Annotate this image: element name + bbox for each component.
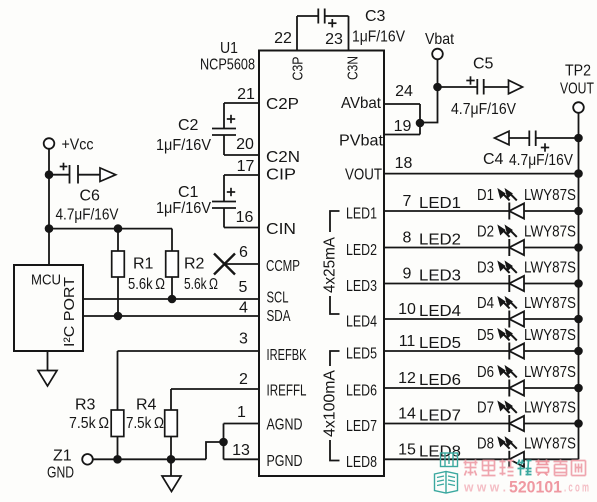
svg-text:PVbat: PVbat xyxy=(339,133,384,150)
svg-text:Z1: Z1 xyxy=(53,448,72,465)
terminal Vbat xyxy=(432,49,443,60)
svg-text:520101: 520101 xyxy=(509,479,562,497)
svg-text:12: 12 xyxy=(398,370,416,387)
svg-text:LED7: LED7 xyxy=(419,408,461,425)
capacitor C4 xyxy=(528,131,530,147)
svg-text:LWY87S: LWY87S xyxy=(524,260,576,277)
svg-text:18: 18 xyxy=(395,155,413,172)
resistor R4 xyxy=(165,410,178,437)
capacitor C1 xyxy=(212,201,236,203)
svg-text:LWY87S: LWY87S xyxy=(524,187,576,204)
svg-text:D8: D8 xyxy=(477,435,494,452)
svg-text:2: 2 xyxy=(239,371,248,388)
svg-text:C3N: C3N xyxy=(345,56,362,80)
svg-text:15: 15 xyxy=(398,441,416,458)
wire C5 to arrow xyxy=(484,86,509,88)
svg-text:MCU: MCU xyxy=(31,272,61,289)
LED D1 symbol xyxy=(508,203,510,220)
wire D2 to VOUT bus xyxy=(524,247,579,249)
no-connect X mark xyxy=(214,254,235,275)
junction R4 on gnd rail xyxy=(167,455,176,464)
svg-text:CIN: CIN xyxy=(266,221,296,238)
wire R2 bottom to SCL xyxy=(171,277,173,299)
wire pin10 to diode D4 xyxy=(384,318,509,320)
svg-text:LED8: LED8 xyxy=(346,454,377,471)
junction R3 on gnd rail xyxy=(113,455,122,464)
svg-text:NCP5608: NCP5608 xyxy=(200,57,255,74)
capacitor C3 xyxy=(317,9,319,24)
wire MCU ground stub xyxy=(47,351,49,371)
svg-text:4.7μF/16V: 4.7μF/16V xyxy=(56,207,119,224)
svg-text:D2: D2 xyxy=(477,224,494,241)
junction LED2 row on bus xyxy=(574,243,583,252)
ground below R4 xyxy=(162,476,181,492)
svg-text:C2: C2 xyxy=(178,117,199,134)
junction LED3 row on bus xyxy=(574,279,583,288)
wire pin9 to diode D3 xyxy=(384,283,509,285)
op-amp U1 NCP5608 IC body xyxy=(259,51,384,477)
wire R4 ground stub xyxy=(170,459,172,476)
svg-text:AGND: AGND xyxy=(267,417,303,434)
svg-text:LED2: LED2 xyxy=(419,232,461,249)
svg-text:+Vcc: +Vcc xyxy=(62,137,94,154)
junction LED4 row on bus xyxy=(574,315,583,324)
svg-text:D4: D4 xyxy=(477,295,494,312)
wire AGND pin1 xyxy=(224,423,260,425)
wire pin3 to R3 xyxy=(118,350,260,352)
wire pin11 to diode D5 xyxy=(384,350,509,352)
LED D7 symbol xyxy=(508,415,510,432)
svg-text:16: 16 xyxy=(236,209,254,226)
ground below MCU xyxy=(38,371,57,387)
svg-text:IREFBK: IREFBK xyxy=(267,347,307,364)
terminal TP2 VOUT xyxy=(573,102,584,113)
resistor R1 xyxy=(112,251,125,277)
MCU block xyxy=(14,265,83,351)
wire R4 top lead xyxy=(170,389,172,410)
svg-text:21: 21 xyxy=(237,86,255,103)
pin 23 stub wire xyxy=(348,16,350,51)
wire C4 to bus xyxy=(536,137,579,139)
capacitor C5 xyxy=(476,79,478,95)
junction C4 on bus xyxy=(574,134,583,143)
svg-text:LED6: LED6 xyxy=(419,372,461,389)
connection arrow left of C4 xyxy=(495,131,510,145)
svg-text:R2: R2 xyxy=(184,256,205,273)
wire pin17 to C1 xyxy=(224,174,259,176)
svg-text:4.7μF/16V: 4.7μF/16V xyxy=(509,152,573,169)
svg-text:LWY87S: LWY87S xyxy=(524,327,576,344)
wire AGND-PGND tie xyxy=(223,424,225,460)
svg-text:SCL: SCL xyxy=(267,290,289,307)
svg-text:4.7μF/16V: 4.7μF/16V xyxy=(451,101,516,118)
connection arrow right of C6 xyxy=(100,168,116,182)
svg-text:VOUT: VOUT xyxy=(345,167,382,184)
svg-text:5.6k Ω: 5.6k Ω xyxy=(128,276,165,293)
junction VOUT pin18 on bus xyxy=(574,169,583,178)
svg-text:4: 4 xyxy=(239,300,248,317)
svg-text:D5: D5 xyxy=(477,327,494,344)
svg-text:20: 20 xyxy=(236,136,254,153)
wire pin6 CCMP unconnected xyxy=(225,263,260,265)
wire R4 bottom lead xyxy=(170,437,172,460)
svg-text:C5: C5 xyxy=(473,56,494,73)
junction Vbat feed xyxy=(416,119,425,128)
wire C6 to arrow xyxy=(78,174,100,176)
junction LED6 row on bus xyxy=(574,384,583,393)
wire pin24 AVbat xyxy=(384,103,420,105)
wire PGND pin13 xyxy=(224,458,260,460)
svg-text:22: 22 xyxy=(274,30,292,47)
svg-text:1μF/16V: 1μF/16V xyxy=(352,29,405,46)
bracket 4x25mA xyxy=(330,211,340,232)
svg-text:VOUT: VOUT xyxy=(560,81,594,98)
svg-text:PGND: PGND xyxy=(267,453,303,470)
svg-text:LWY87S: LWY87S xyxy=(524,295,576,312)
svg-text:11: 11 xyxy=(399,333,416,350)
svg-text:GND: GND xyxy=(47,465,74,482)
svg-text:9: 9 xyxy=(403,266,412,283)
wire C3 to pin23 xyxy=(325,15,349,17)
wire R2 top lead xyxy=(171,229,173,251)
svg-text:1μF/16V: 1μF/16V xyxy=(156,137,211,154)
wire pin14 to diode D7 xyxy=(384,423,509,425)
wire gnd jog to Z1 rail xyxy=(206,442,224,459)
svg-text:D6: D6 xyxy=(477,364,494,381)
wire C1 to pin16 xyxy=(223,208,225,228)
watermark book logo xyxy=(435,453,458,493)
wire pin7 to diode D1 xyxy=(384,210,509,212)
wire SDA MCU to pin4 xyxy=(83,315,259,317)
wire D1 to VOUT bus xyxy=(524,210,579,212)
bracket 4x100mA xyxy=(330,351,340,366)
svg-text:14: 14 xyxy=(398,406,416,423)
wire R1 bottom to SDA xyxy=(117,277,119,316)
wire D3 to VOUT bus xyxy=(524,283,579,285)
wire pin18 VOUT to bus xyxy=(384,173,579,175)
svg-text:LED5: LED5 xyxy=(419,335,461,352)
svg-text:LED7: LED7 xyxy=(346,418,377,435)
svg-text:CCMP: CCMP xyxy=(266,258,300,275)
wire pin2 to R4 xyxy=(171,388,259,390)
resistor R2 xyxy=(166,251,179,277)
svg-text:23: 23 xyxy=(325,31,343,48)
wire R1 top lead xyxy=(117,229,119,251)
svg-text:8: 8 xyxy=(403,230,412,247)
wire D6 to VOUT bus xyxy=(524,387,579,389)
svg-text:LED3: LED3 xyxy=(346,278,377,295)
wire D7 to VOUT bus xyxy=(524,423,579,425)
junction LED5 row on bus xyxy=(574,347,583,356)
svg-text:1μF/16V: 1μF/16V xyxy=(156,200,211,217)
svg-text:LED5: LED5 xyxy=(346,346,377,363)
svg-text:LED4: LED4 xyxy=(419,303,461,320)
wire Vbat drop xyxy=(420,60,438,123)
watermark site name glyphs xyxy=(464,460,586,476)
svg-text:LED4: LED4 xyxy=(346,314,377,331)
svg-text:C2P: C2P xyxy=(266,96,299,113)
wire to C6 xyxy=(49,174,70,176)
svg-text:C4: C4 xyxy=(483,151,504,168)
svg-text:D1: D1 xyxy=(477,187,494,204)
svg-text:7: 7 xyxy=(403,193,412,210)
svg-text:AVbat: AVbat xyxy=(341,95,382,112)
svg-text:LWY87S: LWY87S xyxy=(524,224,576,241)
LED D4 symbol xyxy=(508,311,510,328)
svg-text:D7: D7 xyxy=(477,400,494,417)
terminal Z1 GND xyxy=(82,454,93,465)
wire pin8 to diode D2 xyxy=(384,247,509,249)
svg-text:LWY87S: LWY87S xyxy=(524,435,576,452)
LED D5 symbol xyxy=(508,343,510,360)
svg-text:C1: C1 xyxy=(178,184,199,201)
svg-text:I²C PORT: I²C PORT xyxy=(61,277,78,347)
wire R3 top lead xyxy=(117,351,119,410)
svg-text:LED1: LED1 xyxy=(346,206,377,223)
wire AVbat-PVbat tie xyxy=(419,104,421,135)
svg-text:6: 6 xyxy=(239,244,248,261)
svg-text:5: 5 xyxy=(239,279,248,296)
wire C2 to pin20 xyxy=(223,135,225,155)
svg-text:TP2: TP2 xyxy=(565,63,591,80)
LED D2 symbol xyxy=(508,239,510,256)
connection arrow right of C5 xyxy=(509,80,523,94)
junction R1 top xyxy=(114,224,123,233)
svg-text:U1: U1 xyxy=(220,40,238,57)
svg-text:1: 1 xyxy=(237,404,246,421)
terminal +Vcc xyxy=(44,138,55,149)
junction C5 branch xyxy=(433,83,442,92)
svg-text:R4: R4 xyxy=(136,397,157,414)
wire pin21 C2P xyxy=(224,102,259,104)
svg-text:13: 13 xyxy=(232,442,250,459)
junction R1/R2 branch xyxy=(45,224,54,233)
svg-text:Vbat: Vbat xyxy=(425,31,454,48)
junction C6 branch xyxy=(45,170,54,179)
svg-text:LWY87S: LWY87S xyxy=(524,400,576,417)
junction R1 SDA xyxy=(114,312,123,321)
svg-text:R1: R1 xyxy=(133,256,154,273)
svg-text:5.6k Ω: 5.6k Ω xyxy=(184,276,218,293)
junction R2 SCL xyxy=(168,295,177,304)
wire Z1 ground rail xyxy=(93,458,206,460)
wire Vcc to R1 R2 xyxy=(49,228,172,230)
pin 22 stub wire xyxy=(296,16,298,51)
wire pin12 to diode D6 xyxy=(384,387,509,389)
svg-text:D3: D3 xyxy=(477,260,494,277)
svg-text:7.5k Ω: 7.5k Ω xyxy=(126,415,164,432)
LED D3 symbol xyxy=(508,275,510,292)
wire R3 bottom lead xyxy=(117,437,119,460)
svg-text:SDA: SDA xyxy=(267,308,291,325)
svg-text:IREFFL: IREFFL xyxy=(267,383,307,400)
svg-text:LWY87S: LWY87S xyxy=(524,364,576,381)
svg-text:LED2: LED2 xyxy=(346,242,377,259)
svg-text:LED1: LED1 xyxy=(419,195,461,212)
junction LED7 row on bus xyxy=(574,419,583,428)
capacitor C2 connection wire top xyxy=(223,103,225,129)
svg-text:10: 10 xyxy=(398,301,416,318)
wire D8 to VOUT bus xyxy=(524,458,579,460)
svg-text:17: 17 xyxy=(237,158,255,175)
wire pin15 to diode D8 xyxy=(384,458,509,460)
svg-text:19: 19 xyxy=(394,118,412,135)
capacitor C6 xyxy=(69,165,71,184)
resistor R3 xyxy=(111,410,124,437)
wire D5 to VOUT bus xyxy=(524,350,579,352)
wire to C5 xyxy=(438,86,478,88)
svg-text:24: 24 xyxy=(395,83,413,100)
svg-text:R3: R3 xyxy=(75,397,96,414)
junction LED1 row on bus xyxy=(574,207,583,216)
wire Vcc rail xyxy=(48,149,50,265)
wire C4 arrow side xyxy=(509,137,529,139)
wire pin19 PVbat xyxy=(384,134,420,136)
svg-text:w w w .: w w w . xyxy=(463,480,506,495)
wire SCL MCU to pin5 xyxy=(83,298,259,300)
svg-text:3: 3 xyxy=(239,331,248,348)
svg-text:4x100mA: 4x100mA xyxy=(322,369,339,437)
svg-text:LED3: LED3 xyxy=(419,268,461,285)
svg-text:C6: C6 xyxy=(80,188,101,205)
svg-text:7.5k Ω: 7.5k Ω xyxy=(69,415,109,432)
svg-text:. c o m: . c o m xyxy=(564,480,589,495)
svg-text:C3P: C3P xyxy=(290,57,307,81)
svg-text:CIP: CIP xyxy=(266,167,296,184)
wire pin22 to C3 xyxy=(297,15,318,17)
junction AGND/PGND xyxy=(219,438,228,447)
LED D6 symbol xyxy=(508,380,510,397)
svg-text:C2N: C2N xyxy=(266,149,300,166)
svg-text:4x25mA: 4x25mA xyxy=(322,236,339,293)
wire VOUT bus vertical xyxy=(578,113,580,460)
LED D8 symbol xyxy=(508,451,510,468)
capacitor C2 xyxy=(212,128,236,130)
wire D4 to VOUT bus xyxy=(524,318,579,320)
svg-text:C3: C3 xyxy=(365,8,386,25)
svg-text:LED6: LED6 xyxy=(346,383,377,400)
